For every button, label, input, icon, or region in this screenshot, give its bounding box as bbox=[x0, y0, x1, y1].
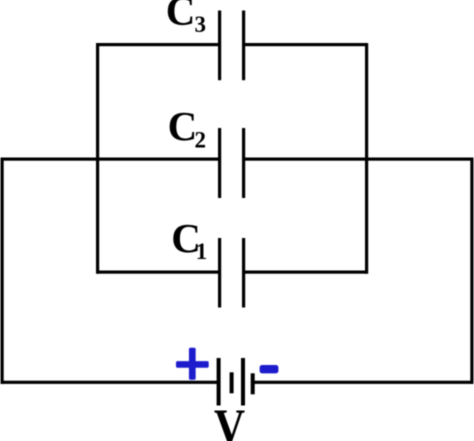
wire: outer left vertical rail bbox=[1, 158, 4, 384]
battery V right long plate bbox=[241, 358, 245, 406]
svg-text:1: 1 bbox=[196, 239, 208, 264]
wire: C3 row right segment bbox=[245, 43, 369, 46]
wire: C1 row left segment bbox=[96, 271, 219, 274]
wire: outer right vertical rail bbox=[470, 158, 473, 384]
svg-text:C: C bbox=[168, 103, 198, 149]
wire: C3 row left segment bbox=[96, 43, 219, 46]
capacitor C2 left plate bbox=[218, 128, 221, 198]
wire: C1 row right segment bbox=[245, 271, 369, 274]
capacitor C3 right plate bbox=[242, 11, 245, 81]
wire: C2 row right segment bbox=[245, 158, 474, 161]
capacitor C3 left plate bbox=[218, 11, 221, 81]
wire: inner right vertical rail bbox=[365, 43, 368, 274]
battery plus sign (blue) bbox=[176, 348, 209, 380]
svg-text:V: V bbox=[214, 400, 245, 441]
capacitor C2 right plate bbox=[242, 128, 245, 198]
wire: battery row right segment bbox=[253, 381, 474, 384]
capacitor C1 right plate bbox=[242, 238, 245, 308]
wire: C2 row left segment bbox=[1, 158, 219, 161]
wire: inner left vertical rail bbox=[96, 43, 99, 274]
battery V right short plate bbox=[251, 373, 255, 394]
capacitor C1 left plate bbox=[218, 238, 221, 308]
svg-text:C: C bbox=[166, 0, 196, 34]
svg-text:2: 2 bbox=[195, 127, 207, 152]
battery V left long plate bbox=[217, 358, 221, 406]
svg-text:3: 3 bbox=[195, 12, 207, 37]
battery V middle short plate bbox=[230, 372, 234, 393]
label V (battery voltage) bbox=[214, 400, 245, 441]
wire: battery row left segment bbox=[1, 381, 220, 384]
battery minus sign (blue) bbox=[260, 365, 279, 373]
